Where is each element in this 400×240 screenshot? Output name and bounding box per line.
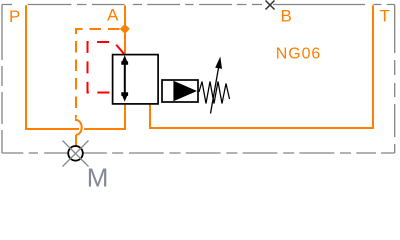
measuring point M cross — [63, 141, 89, 167]
wire A vertical to valve top port — [124, 5, 126, 55]
frame border left edge — [1, 5, 3, 154]
adjustment arrowhead — [215, 57, 222, 69]
svg-text:M: M — [87, 163, 109, 193]
flow path arrow shaft inside valve — [124, 62, 126, 96]
arrowhead up — [121, 55, 128, 65]
wire pilot drain (orange dashed from node A to M) — [76, 29, 120, 120]
wire line hop over P line — [76, 119, 82, 135]
svg-text:T: T — [380, 7, 390, 26]
pilot line (red dashed sensing line around valve) — [88, 42, 125, 93]
frame border bottom edge — [2, 152, 395, 154]
svg-text:A: A — [107, 5, 119, 24]
svg-text:P: P — [9, 7, 20, 26]
spring (adjustable) — [199, 82, 230, 104]
frame border right edge — [394, 5, 396, 154]
port B plugged mark (X) — [266, 1, 275, 10]
pilot actuator box — [162, 80, 198, 102]
measuring point M circle — [68, 146, 83, 161]
arrowhead down — [121, 92, 128, 101]
svg-text:NG06: NG06 — [276, 46, 321, 63]
frame border top edge — [2, 4, 395, 6]
wire line hop over P line (white casing) — [76, 120, 82, 135]
pilot actuator triangle — [173, 81, 197, 101]
adjustment arrow shaft — [211, 65, 220, 114]
valve body V1 (square) — [113, 55, 159, 104]
wire drain stub to measuring point M — [75, 135, 77, 146]
wire T vertical+horizontal to valve bottom port — [150, 5, 373, 128]
node A junction (orange diamond) — [120, 24, 130, 34]
svg-text:B: B — [281, 7, 292, 26]
wire P vertical+horizontal to valve bottom port — [26, 5, 125, 129]
